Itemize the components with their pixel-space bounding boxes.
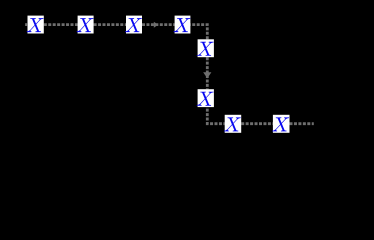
wire stub left of X1 [25, 23, 27, 26]
wire right of X8 [290, 122, 314, 125]
wire X7 to X8 [241, 122, 273, 125]
label X5 [197, 42, 214, 56]
node X8 box [273, 115, 290, 133]
node X3 box [126, 16, 142, 34]
label X2 [77, 18, 94, 32]
label X8 [272, 117, 289, 131]
label X4 [173, 18, 190, 32]
wire X1 to X2 [44, 23, 78, 26]
wire X4 corner down to X5 [190, 25, 207, 40]
label X7 [224, 117, 241, 131]
node X1 box [28, 16, 44, 34]
node X4 box [175, 16, 191, 34]
node X7 box [225, 115, 242, 133]
arrowhead right on X3-X4 wire [154, 22, 158, 28]
wire X5 down to X6 [206, 57, 209, 89]
label X3 [125, 18, 142, 32]
label X6 [197, 92, 214, 106]
label X1 [27, 18, 44, 32]
node X2 box [78, 16, 94, 34]
arrowhead down on X5-X6 wire [203, 72, 211, 78]
wire X6 corner right to X7 [207, 107, 224, 124]
wire X2 to X3 [94, 23, 126, 26]
node X6 box [198, 89, 214, 107]
node X5 box [198, 39, 214, 57]
wire X3 to X4 [142, 23, 175, 26]
chain diagram of X state nodes [0, 0, 374, 149]
